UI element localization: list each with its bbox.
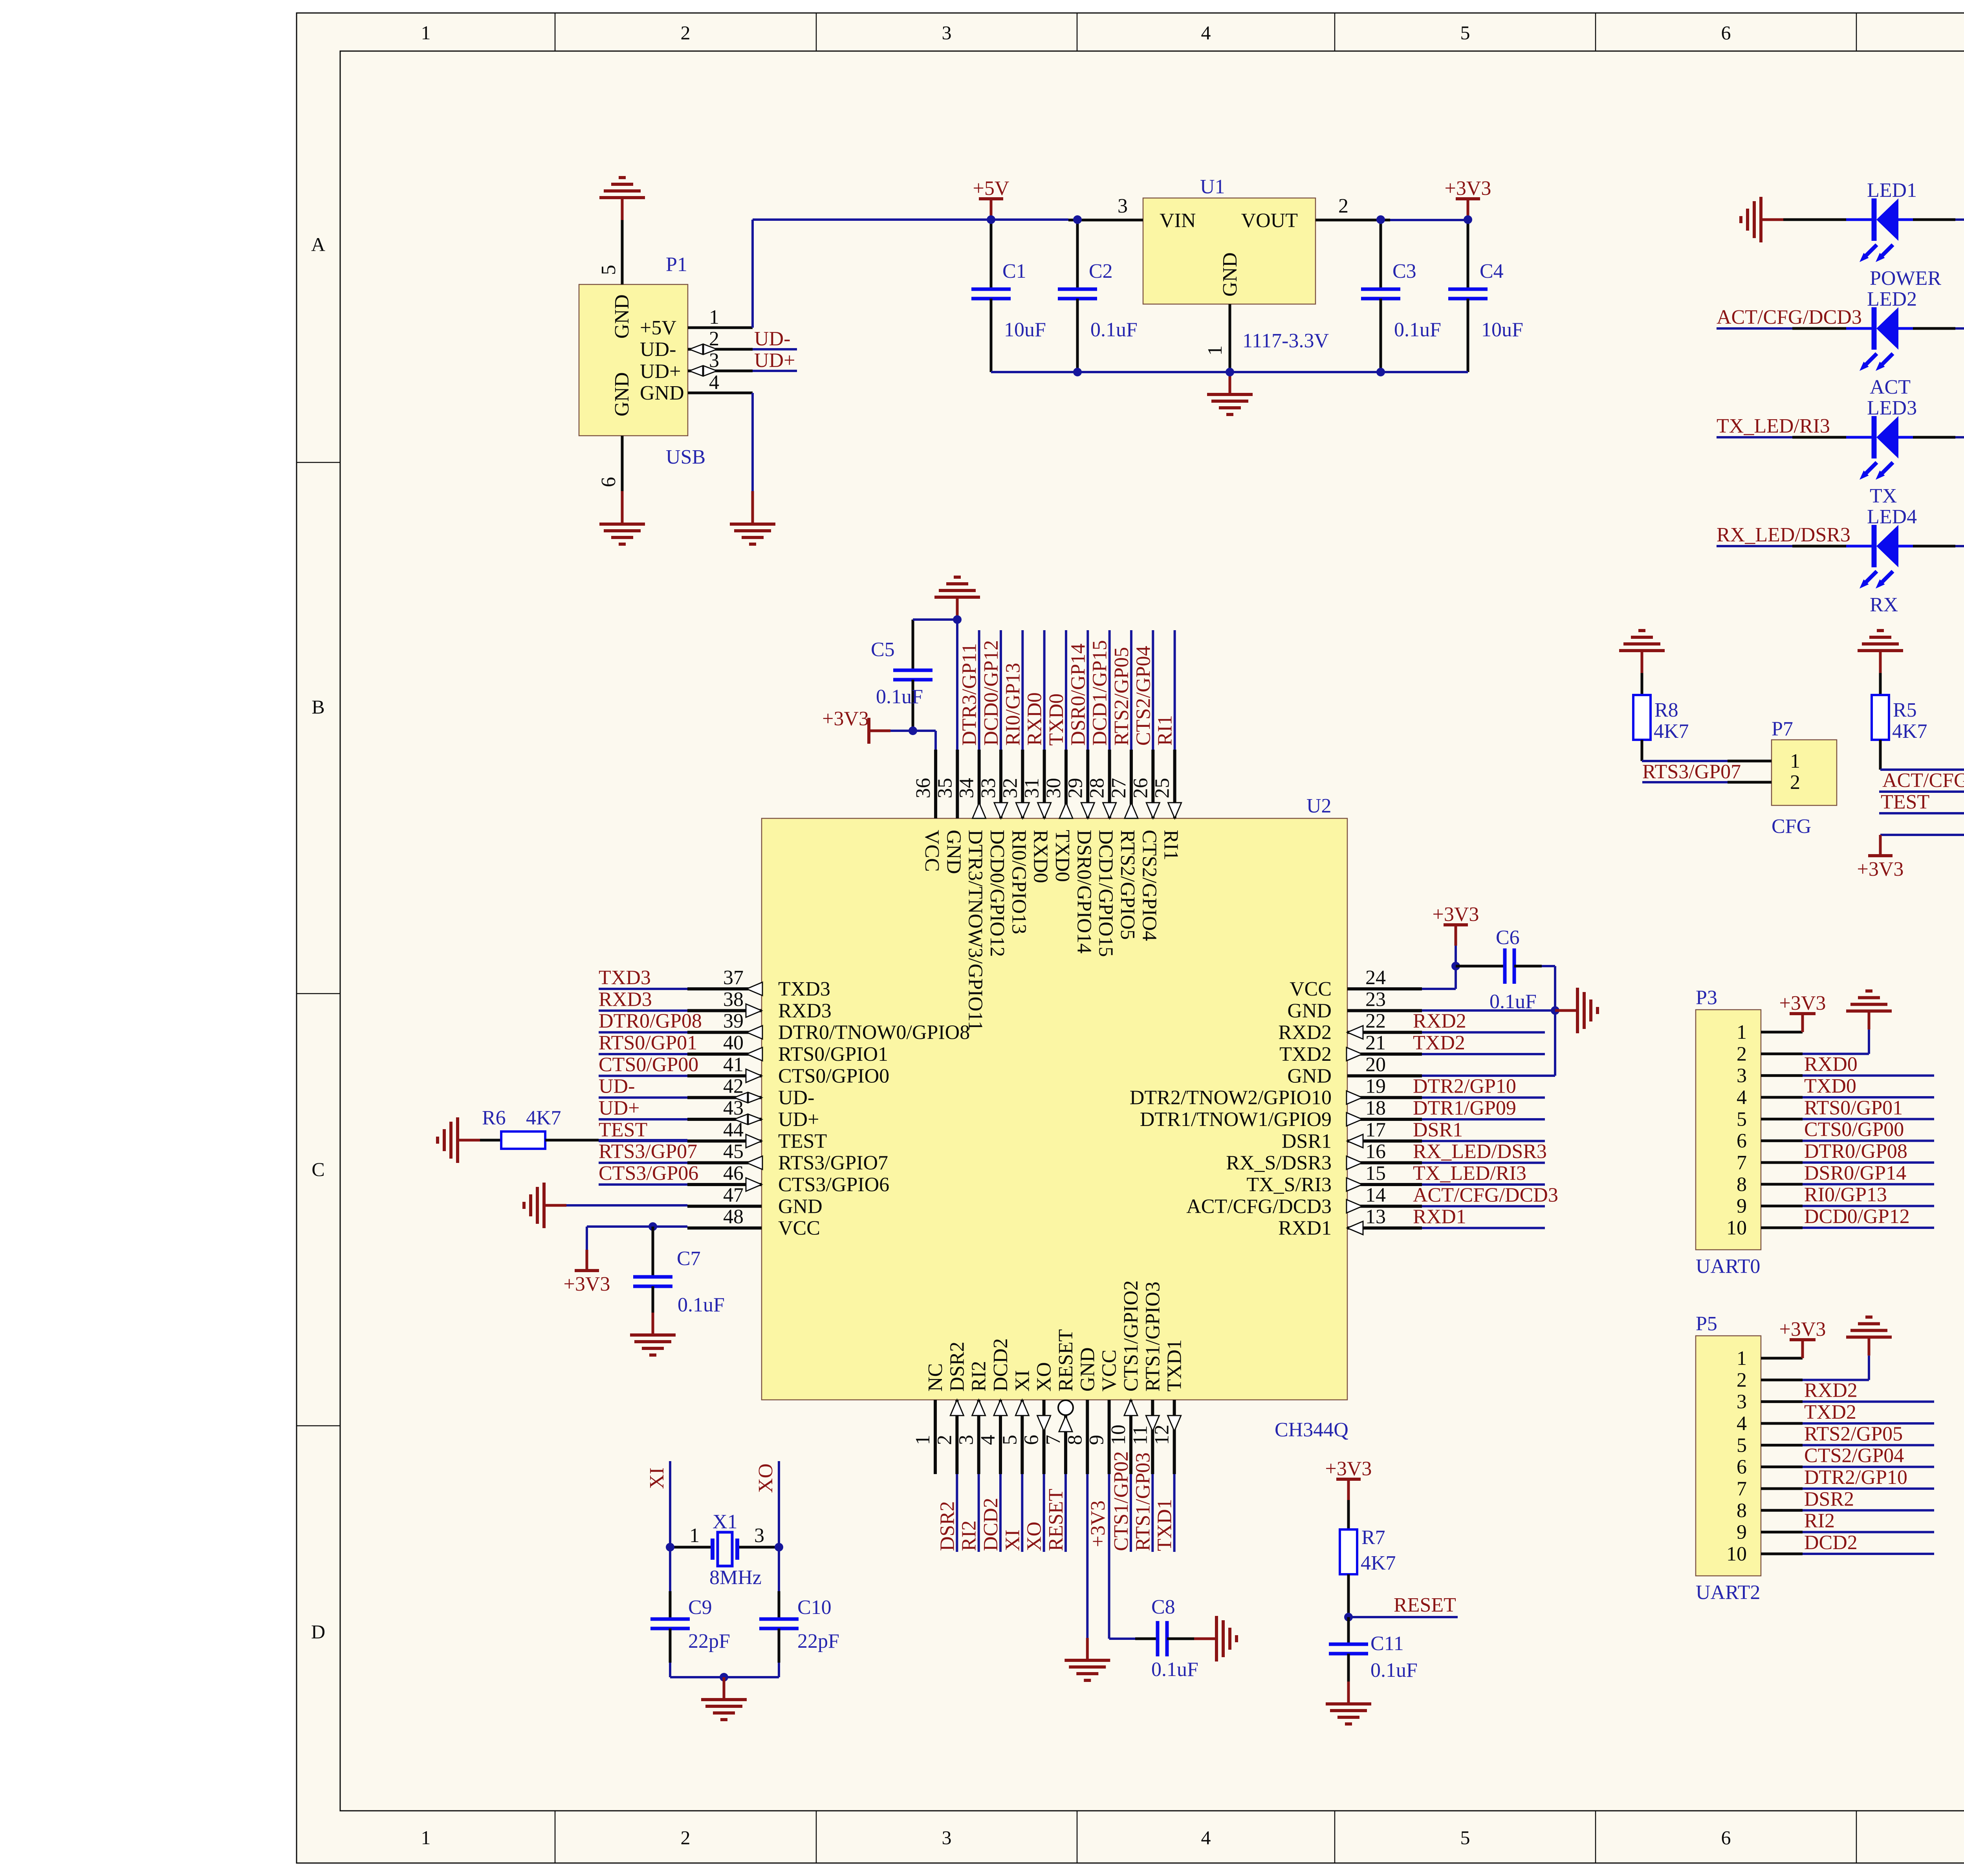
svg-text:RTS1/GPIO3: RTS1/GPIO3 [1141, 1282, 1164, 1392]
wire net DTR1/GP09 at U2 pin 18 [1422, 1118, 1545, 1120]
U2 pin 25 [1151, 750, 1182, 818]
svg-text:17: 17 [1365, 1119, 1386, 1141]
U2 pin 28 [1086, 750, 1116, 818]
wire C6 to gnd net [1422, 966, 1555, 1076]
U2 pin 46 name [778, 1174, 889, 1196]
svg-text:VCC: VCC [778, 1217, 820, 1240]
P3 pin 6 [1737, 1130, 1803, 1152]
wire +3V3 to R7 [1347, 1500, 1350, 1529]
svg-text:UD+: UD+ [754, 349, 795, 372]
svg-text:XO: XO [755, 1463, 777, 1493]
svg-text:RI1: RI1 [1160, 830, 1182, 860]
led LED4 [1846, 525, 1913, 589]
svg-text:DTR3/GP11: DTR3/GP11 [958, 643, 981, 746]
R6 labels [482, 1107, 561, 1129]
wire ground to LED1 [1783, 218, 1846, 221]
wire RX_LED/DSR3 to LED4 [1717, 545, 1846, 547]
wire net TXD3 at U2 pin 37 [599, 988, 687, 990]
svg-text:TXD1: TXD1 [1154, 1499, 1176, 1551]
U2 pin 20 name [1287, 1065, 1332, 1087]
wire TX_LED/RI3 to LED3 [1717, 436, 1846, 438]
ground at R5 [1858, 631, 1903, 673]
svg-text:1117-3.3V: 1117-3.3V [1242, 330, 1329, 352]
power flag +3V3 at C7 [564, 1250, 610, 1295]
svg-text:4: 4 [1201, 1826, 1211, 1848]
U2 pin 25 name [1160, 830, 1182, 860]
svg-text:7: 7 [1042, 1435, 1064, 1445]
svg-text:RXD0: RXD0 [1804, 1053, 1858, 1076]
P1 pin 5 [597, 220, 622, 284]
ground at C8 [1194, 1616, 1237, 1661]
P3 pin 1 [1737, 1021, 1803, 1043]
svg-text:UD-: UD- [778, 1087, 814, 1109]
ground at C7 [630, 1313, 676, 1355]
svg-text:3: 3 [1737, 1065, 1747, 1087]
svg-text:5: 5 [1737, 1108, 1747, 1130]
svg-text:ACT/CFG/DCD3: ACT/CFG/DCD3 [1882, 769, 1964, 792]
svg-text:DCD1/GP15: DCD1/GP15 [1089, 640, 1111, 746]
svg-text:RTS0/GP01: RTS0/GP01 [599, 1032, 697, 1054]
wire net CTS0/GP00 at U2 pin 41 [599, 1075, 687, 1077]
svg-text:0.1uF: 0.1uF [1370, 1659, 1418, 1682]
sheet inner border frame [340, 51, 1964, 1811]
svg-text:RTS2/GPIO5: RTS2/GPIO5 [1116, 830, 1139, 940]
U1 pin 3 VIN [1068, 195, 1143, 220]
U2 pin 15 [1347, 1162, 1422, 1191]
P1 value label USB [666, 446, 705, 468]
wire LED1 to R1 [1913, 218, 1964, 221]
svg-text:NC: NC [924, 1363, 947, 1392]
svg-text:CTS2/GPIO4: CTS2/GPIO4 [1138, 830, 1160, 941]
svg-text:C6: C6 [1496, 926, 1520, 949]
U2 pin 12 [1151, 1400, 1181, 1474]
svg-text:TXD1: TXD1 [1163, 1339, 1186, 1392]
capacitor C11 [1329, 1617, 1368, 1682]
ground at P3 [1846, 991, 1892, 1029]
wire UD- stub [753, 348, 797, 350]
svg-text:39: 39 [723, 1010, 744, 1032]
ground at P1 pin 4 [730, 491, 775, 544]
ground at U1 [1207, 372, 1253, 414]
svg-text:DTR2/GP10: DTR2/GP10 [1413, 1075, 1516, 1098]
svg-text:RXD3: RXD3 [778, 999, 832, 1022]
P1 pin 6 [597, 436, 622, 491]
svg-text:GND: GND [1287, 1065, 1332, 1087]
wire net XI at U2 pin 5 [1021, 1474, 1023, 1552]
svg-text:CTS3/GPIO6: CTS3/GPIO6 [778, 1174, 889, 1196]
U2 pin 36 name [921, 830, 943, 872]
svg-text:9: 9 [1737, 1195, 1747, 1218]
net label RI2 bottom [958, 1520, 980, 1551]
svg-text:XO: XO [1023, 1522, 1046, 1551]
svg-text:GND: GND [640, 382, 684, 404]
wire R8 to P7 pin1 [1642, 740, 1728, 761]
wire net CTS0/GP00 at P3 pin 6 [1803, 1140, 1934, 1142]
wire net XI [669, 1461, 671, 1547]
net label RTS1/GP03 bottom [1132, 1452, 1154, 1551]
U2 pin 45 [687, 1141, 762, 1170]
svg-text:6: 6 [1737, 1456, 1747, 1478]
LED2 designator label [1867, 288, 1917, 310]
U2 pin 26 name [1138, 830, 1160, 941]
junction dot XI [666, 1543, 674, 1551]
svg-text:7: 7 [1737, 1478, 1747, 1500]
svg-text:3: 3 [1118, 195, 1128, 217]
U2 pin 27 name [1116, 830, 1139, 940]
P1 pin 1 +5V [688, 306, 753, 328]
wire net RTS0/GP01 at P3 pin 5 [1803, 1118, 1934, 1120]
svg-text:6: 6 [1020, 1435, 1043, 1445]
svg-text:USB: USB [666, 446, 705, 468]
svg-text:LED1: LED1 [1867, 179, 1917, 202]
svg-text:XO: XO [1033, 1362, 1055, 1392]
wire net CTS2/GP04 at U2 pin 26 [1152, 630, 1154, 750]
svg-text:6: 6 [1721, 1826, 1731, 1848]
svg-text:VCC: VCC [1290, 978, 1332, 1000]
U2 pin 6 name [1033, 1362, 1055, 1392]
svg-text:2: 2 [1737, 1043, 1747, 1065]
wire net CTS1/GP02 at U2 pin 10 [1130, 1474, 1132, 1552]
svg-text:DCD2: DCD2 [989, 1338, 1012, 1392]
wire net RXD2 at P5 pin 3 [1803, 1401, 1934, 1403]
P3 pin 7 [1737, 1152, 1803, 1174]
U2 pin 14 name [1186, 1195, 1332, 1218]
P5 pin 6 [1737, 1456, 1803, 1478]
svg-text:+3V3: +3V3 [1445, 177, 1491, 200]
wire net RI0/GP13 at U2 pin 32 [1021, 630, 1024, 750]
U2 pin 46 [687, 1162, 762, 1191]
svg-text:RXD2: RXD2 [1804, 1379, 1858, 1402]
net label DCD2 at P5 [1804, 1531, 1858, 1554]
U2 pin 38 [687, 988, 762, 1017]
capacitor C4 [1448, 220, 1488, 372]
wire +3V3 to P2 pin4 [1880, 834, 1964, 836]
wire net DSR0/GP14 at P3 pin 8 [1803, 1183, 1934, 1185]
svg-text:31: 31 [1021, 778, 1043, 798]
svg-text:2: 2 [709, 328, 719, 350]
svg-text:13: 13 [1365, 1206, 1386, 1228]
svg-text:DCD1/GPIO15: DCD1/GPIO15 [1095, 830, 1117, 957]
ground above U2 pin 35 [934, 577, 980, 620]
svg-text:RTS1/GP03: RTS1/GP03 [1132, 1452, 1154, 1551]
svg-text:VIN: VIN [1160, 209, 1196, 232]
svg-text:POWER: POWER [1870, 267, 1941, 290]
svg-text:32: 32 [999, 778, 1021, 798]
svg-text:XI: XI [1001, 1529, 1024, 1551]
P5 value label UART2 [1696, 1581, 1760, 1604]
P3 designator label [1696, 987, 1717, 1009]
wire U2 pin9 VCC to C8 [1109, 1474, 1135, 1639]
svg-text:GND: GND [1219, 252, 1241, 297]
svg-text:R5: R5 [1893, 699, 1917, 721]
svg-text:DTR0/TNOW0/GPIO8: DTR0/TNOW0/GPIO8 [778, 1021, 970, 1044]
wire net TXD0 at P3 pin 4 [1803, 1096, 1934, 1098]
svg-text:1: 1 [1737, 1021, 1747, 1043]
svg-text:RXD0: RXD0 [1024, 692, 1046, 746]
svg-text:46: 46 [723, 1162, 744, 1185]
P1 designator label [666, 253, 687, 276]
svg-text:CTS0/GP00: CTS0/GP00 [599, 1053, 698, 1076]
wire VOUT to +3V3 [1390, 219, 1468, 221]
svg-text:TXD2: TXD2 [1804, 1401, 1856, 1423]
svg-text:RXD0: RXD0 [1030, 830, 1052, 883]
junction dot C6 gnd [1551, 1006, 1559, 1015]
net label TXD1 bottom [1154, 1499, 1176, 1551]
svg-text:3: 3 [955, 1435, 978, 1445]
U2 pin 23 name [1287, 999, 1332, 1022]
svg-text:3: 3 [709, 349, 719, 372]
net label XI [646, 1467, 668, 1489]
U2 pin 29 [1064, 750, 1094, 818]
wire net DTR3/GP11 at U2 pin 34 [978, 630, 980, 750]
net label DTR2/GP10 at P5 [1804, 1466, 1907, 1489]
wire net DSR2 at P5 pin 8 [1803, 1509, 1934, 1511]
U2 pin 4 [977, 1400, 1007, 1474]
svg-text:RXD2: RXD2 [1413, 1010, 1466, 1032]
svg-text:RXD3: RXD3 [599, 988, 652, 1010]
X1 labels [689, 1511, 764, 1589]
svg-text:TEST: TEST [599, 1119, 647, 1141]
svg-text:DSR1: DSR1 [1413, 1119, 1463, 1141]
U2 pin 13 [1347, 1206, 1422, 1235]
wire net RESET at U2 pin 7 [1064, 1474, 1067, 1552]
U2 pin 43 name [778, 1108, 819, 1131]
capacitor C10 [759, 1547, 799, 1677]
U2 pin 45 name [778, 1152, 888, 1174]
power flag +3V3 at C6 [1433, 903, 1479, 946]
svg-text:RTS3/GP07: RTS3/GP07 [1642, 761, 1741, 783]
svg-text:47: 47 [723, 1184, 744, 1206]
svg-text:24: 24 [1365, 966, 1386, 989]
frame row separators [297, 462, 1964, 1426]
wire net RI1 at U2 pin 25 [1174, 630, 1176, 750]
svg-text:TX_S/RI3: TX_S/RI3 [1246, 1174, 1332, 1196]
svg-text:DSR2: DSR2 [936, 1501, 958, 1551]
power flag +3V3 at C4 [1445, 177, 1491, 220]
svg-text:0.1uF: 0.1uF [1151, 1658, 1198, 1681]
net label RXD0 at P3 [1804, 1053, 1858, 1076]
U2 pin 1 name [924, 1363, 947, 1392]
U2 pin 37 [687, 966, 762, 996]
svg-text:DTR2/TNOW2/GPIO10: DTR2/TNOW2/GPIO10 [1130, 1087, 1332, 1109]
wire net DTR2/GP10 at U2 pin 19 [1422, 1097, 1545, 1099]
wire ACT/CFG/DCD3 to LED2 [1717, 327, 1846, 330]
net label RXD1 right [1413, 1206, 1466, 1228]
wire net UD+ at U2 pin 43 [599, 1118, 687, 1120]
wire net RTS2/GP05 at U2 pin 27 [1130, 630, 1132, 750]
wire net UD- at U2 pin 42 [599, 1097, 687, 1099]
net label TXD0 [1045, 693, 1068, 746]
ground at R8 [1619, 631, 1665, 673]
U2 pin 37 name [778, 978, 830, 1000]
svg-text:TEST: TEST [778, 1130, 827, 1152]
svg-text:+3V3: +3V3 [1779, 1318, 1826, 1341]
C11 labels [1370, 1632, 1418, 1682]
U2 pin 6 [1020, 1400, 1051, 1474]
U2 pin 34 [956, 750, 986, 818]
svg-text:VOUT: VOUT [1241, 209, 1298, 232]
net label TXD2 right [1413, 1032, 1465, 1054]
U2 pin 17 name [1282, 1130, 1332, 1152]
ground at U2 pin8 [1064, 1638, 1110, 1680]
U2 pin 21 name [1279, 1043, 1332, 1065]
svg-text:P1: P1 [666, 253, 687, 276]
svg-text:DTR0/GP08: DTR0/GP08 [1804, 1140, 1907, 1163]
wire net RI2 at P5 pin 9 [1803, 1531, 1934, 1533]
U2 pin 32 [999, 750, 1029, 818]
wire P5 pin2 to ground [1803, 1355, 1869, 1380]
svg-text:8: 8 [1064, 1435, 1086, 1445]
net label RI2 at P5 [1804, 1510, 1835, 1532]
U2 pin 38 name [778, 999, 832, 1022]
svg-text:DTR1/TNOW1/GPIO9: DTR1/TNOW1/GPIO9 [1140, 1108, 1332, 1131]
svg-text:DTR2/GP10: DTR2/GP10 [1804, 1466, 1907, 1489]
net label RTS0/GP01 left [599, 1032, 697, 1054]
svg-text:48: 48 [723, 1206, 744, 1228]
net label TXD3 left [599, 966, 651, 989]
R8 labels [1654, 699, 1689, 743]
svg-text:42: 42 [723, 1075, 744, 1098]
svg-text:10: 10 [1107, 1425, 1130, 1445]
wire net DCD1/GP15 at U2 pin 28 [1108, 630, 1111, 750]
svg-text:1: 1 [421, 22, 431, 44]
svg-text:P3: P3 [1696, 987, 1717, 1009]
svg-text:TXD2: TXD2 [1413, 1032, 1465, 1054]
capacitor C5 [893, 620, 933, 731]
net label RESET bottom [1045, 1489, 1067, 1551]
svg-text:UD+: UD+ [640, 360, 681, 383]
P5 pin 8 [1737, 1499, 1803, 1522]
svg-text:CFG: CFG [1772, 815, 1811, 838]
U1 pin 1 GND [1204, 304, 1230, 372]
U2 pin 7 [1042, 1400, 1073, 1474]
svg-text:RXD1: RXD1 [1278, 1217, 1332, 1240]
svg-text:+3V3: +3V3 [1433, 903, 1479, 926]
svg-text:TXD2: TXD2 [1279, 1043, 1332, 1065]
P5 pin 5 [1737, 1434, 1803, 1456]
svg-text:22pF: 22pF [797, 1630, 839, 1652]
U2 pin 15 name [1246, 1174, 1332, 1196]
svg-text:5: 5 [1737, 1434, 1747, 1456]
wire +3V3 to U2 pin36 [890, 731, 936, 750]
svg-text:DCD2: DCD2 [1804, 1531, 1858, 1554]
svg-text:15: 15 [1365, 1162, 1386, 1185]
net label TX_LED/RI3 [1717, 415, 1830, 437]
net label ACT/CFG/DCD3 right [1413, 1184, 1558, 1206]
U2 pin 39 [687, 1010, 762, 1039]
LED3 designator label [1867, 397, 1917, 419]
svg-text:LED3: LED3 [1867, 397, 1917, 419]
svg-text:2: 2 [681, 1826, 691, 1848]
svg-text:RTS2/GP05: RTS2/GP05 [1804, 1423, 1903, 1445]
junction dot C5 bottom [909, 726, 917, 735]
svg-text:P7: P7 [1772, 718, 1793, 740]
wire net RI2 at U2 pin 3 [978, 1474, 980, 1552]
U1 designator label [1200, 176, 1225, 198]
wire ground to U2 pin47 [566, 1204, 687, 1207]
svg-text:RX: RX [1870, 594, 1898, 616]
svg-text:RXD2: RXD2 [1278, 1021, 1332, 1044]
svg-text:RESET: RESET [1055, 1329, 1077, 1392]
junction dot C7 [649, 1222, 657, 1231]
svg-text:R8: R8 [1654, 699, 1678, 721]
net label RX_LED/DSR3 [1717, 524, 1850, 546]
net label CTS0/GP00 at P3 [1804, 1119, 1904, 1141]
svg-text:36: 36 [912, 778, 934, 798]
C7 labels [677, 1247, 725, 1316]
svg-text:C2: C2 [1089, 260, 1113, 282]
svg-text:RTS2/GP05: RTS2/GP05 [1110, 647, 1133, 746]
U2 pin 31 name [1030, 830, 1052, 883]
svg-text:CTS0/GP00: CTS0/GP00 [1804, 1119, 1904, 1141]
U2 pin 44 name [778, 1130, 827, 1152]
U2 pin 28 name [1095, 830, 1117, 957]
svg-text:TXD0: TXD0 [1045, 693, 1068, 746]
svg-text:10: 10 [1726, 1217, 1747, 1239]
net label +3V3 at pin9 [1087, 1500, 1109, 1547]
U2 pin 10 name [1120, 1280, 1142, 1392]
P1 pin 4 GND [688, 371, 753, 394]
wire net DSR0/GP14 at U2 pin 29 [1086, 630, 1089, 750]
svg-text:TX: TX [1870, 485, 1897, 507]
wire ground to R6 [480, 1139, 501, 1142]
wire net TXD2 at U2 pin 21 [1422, 1053, 1545, 1055]
svg-text:26: 26 [1129, 778, 1152, 798]
svg-text:28: 28 [1086, 778, 1108, 798]
U2 pin 35 [934, 750, 957, 818]
svg-text:1: 1 [689, 1524, 700, 1547]
U2 pin 19 name [1130, 1087, 1332, 1109]
svg-text:3: 3 [942, 22, 952, 44]
wire net DCD0/GP12 at P3 pin 10 [1803, 1227, 1934, 1229]
svg-text:RXD1: RXD1 [1413, 1206, 1466, 1228]
P5 pin 9 [1737, 1521, 1803, 1544]
svg-text:C10: C10 [797, 1596, 832, 1619]
net label DSR2 bottom [936, 1501, 958, 1551]
svg-text:LED4: LED4 [1867, 506, 1917, 528]
svg-text:2: 2 [1338, 195, 1348, 217]
U2 pin 44 [687, 1119, 762, 1148]
net label UD- left [599, 1075, 635, 1098]
net label DCD1/GP15 [1089, 640, 1111, 746]
svg-text:C9: C9 [688, 1596, 712, 1619]
svg-text:0.1uF: 0.1uF [1090, 319, 1138, 341]
svg-text:25: 25 [1151, 778, 1174, 798]
capacitor C8 [1135, 1621, 1194, 1656]
svg-text:ACT/CFG/DCD3: ACT/CFG/DCD3 [1186, 1195, 1332, 1218]
U2 pin 1 [912, 1400, 935, 1474]
ground at R6 [438, 1117, 480, 1163]
net label CTS2/GP04 [1132, 646, 1154, 746]
svg-text:38: 38 [723, 988, 744, 1010]
U2 pin 30 name [1051, 830, 1074, 882]
net label TX_LED/RI3 right [1413, 1162, 1526, 1185]
C1 labels [1002, 260, 1046, 341]
U2 pin 19 [1347, 1075, 1422, 1104]
wire net RTS3/GP07 at U2 pin 45 [599, 1162, 687, 1164]
svg-text:4K7: 4K7 [526, 1107, 561, 1129]
svg-text:R6: R6 [482, 1107, 506, 1129]
power flag +3V3 at P3 [1779, 992, 1826, 1032]
svg-text:UD-: UD- [599, 1075, 635, 1098]
frame row letters A-D [311, 233, 1964, 1643]
U2 pin 22 name [1278, 1021, 1332, 1044]
wire C5 to pin35 net [913, 620, 957, 750]
svg-text:6: 6 [597, 477, 620, 487]
svg-text:0.1uF: 0.1uF [876, 686, 923, 708]
connector P1 body [579, 284, 688, 436]
C2 labels [1089, 260, 1138, 341]
